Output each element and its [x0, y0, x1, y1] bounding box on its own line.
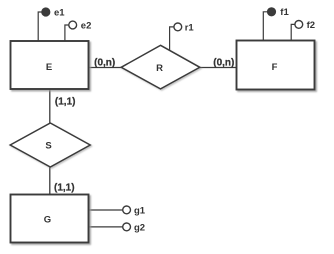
attribute e1 (key): [42, 8, 50, 16]
wire attribute f2: [291, 24, 296, 41]
svg-text:e1: e1: [54, 7, 65, 18]
entity F: [237, 41, 315, 90]
attribute e2: [69, 21, 77, 29]
relationship R: [121, 45, 200, 89]
relationship S: [10, 123, 90, 167]
wire E to R: [88, 67, 123, 69]
wire G to g1: [88, 209, 123, 211]
svg-text:(0,n): (0,n): [213, 58, 234, 69]
svg-text:r1: r1: [185, 22, 195, 33]
wire G to g2: [88, 226, 123, 228]
wire attribute e2: [65, 25, 70, 42]
svg-text:S: S: [45, 141, 51, 152]
svg-text:(0,n): (0,n): [94, 58, 115, 69]
entity G: [11, 195, 89, 243]
wire R to F: [198, 67, 237, 69]
svg-text:g2: g2: [134, 222, 145, 233]
wire attribute f1: [263, 12, 269, 41]
attribute r1: [174, 23, 182, 31]
svg-text:G: G: [44, 214, 51, 225]
attribute f1 (key): [268, 8, 276, 16]
attribute g2: [123, 223, 131, 231]
attribute g1: [123, 206, 131, 214]
svg-text:(1,1): (1,1): [55, 97, 76, 108]
svg-text:F: F: [272, 62, 278, 73]
svg-text:R: R: [156, 63, 163, 74]
wire E to S: [49, 89, 51, 125]
attribute f2: [295, 21, 303, 29]
wire S to G: [49, 166, 51, 196]
wire attribute e1: [38, 12, 44, 42]
svg-text:g1: g1: [134, 205, 146, 216]
entity E: [11, 41, 89, 89]
svg-text:f1: f1: [280, 7, 289, 18]
svg-text:f2: f2: [307, 20, 315, 31]
svg-text:e2: e2: [81, 20, 92, 31]
svg-text:E: E: [46, 62, 52, 73]
wire attribute r1: [170, 27, 175, 51]
svg-text:(1,1): (1,1): [54, 183, 75, 194]
